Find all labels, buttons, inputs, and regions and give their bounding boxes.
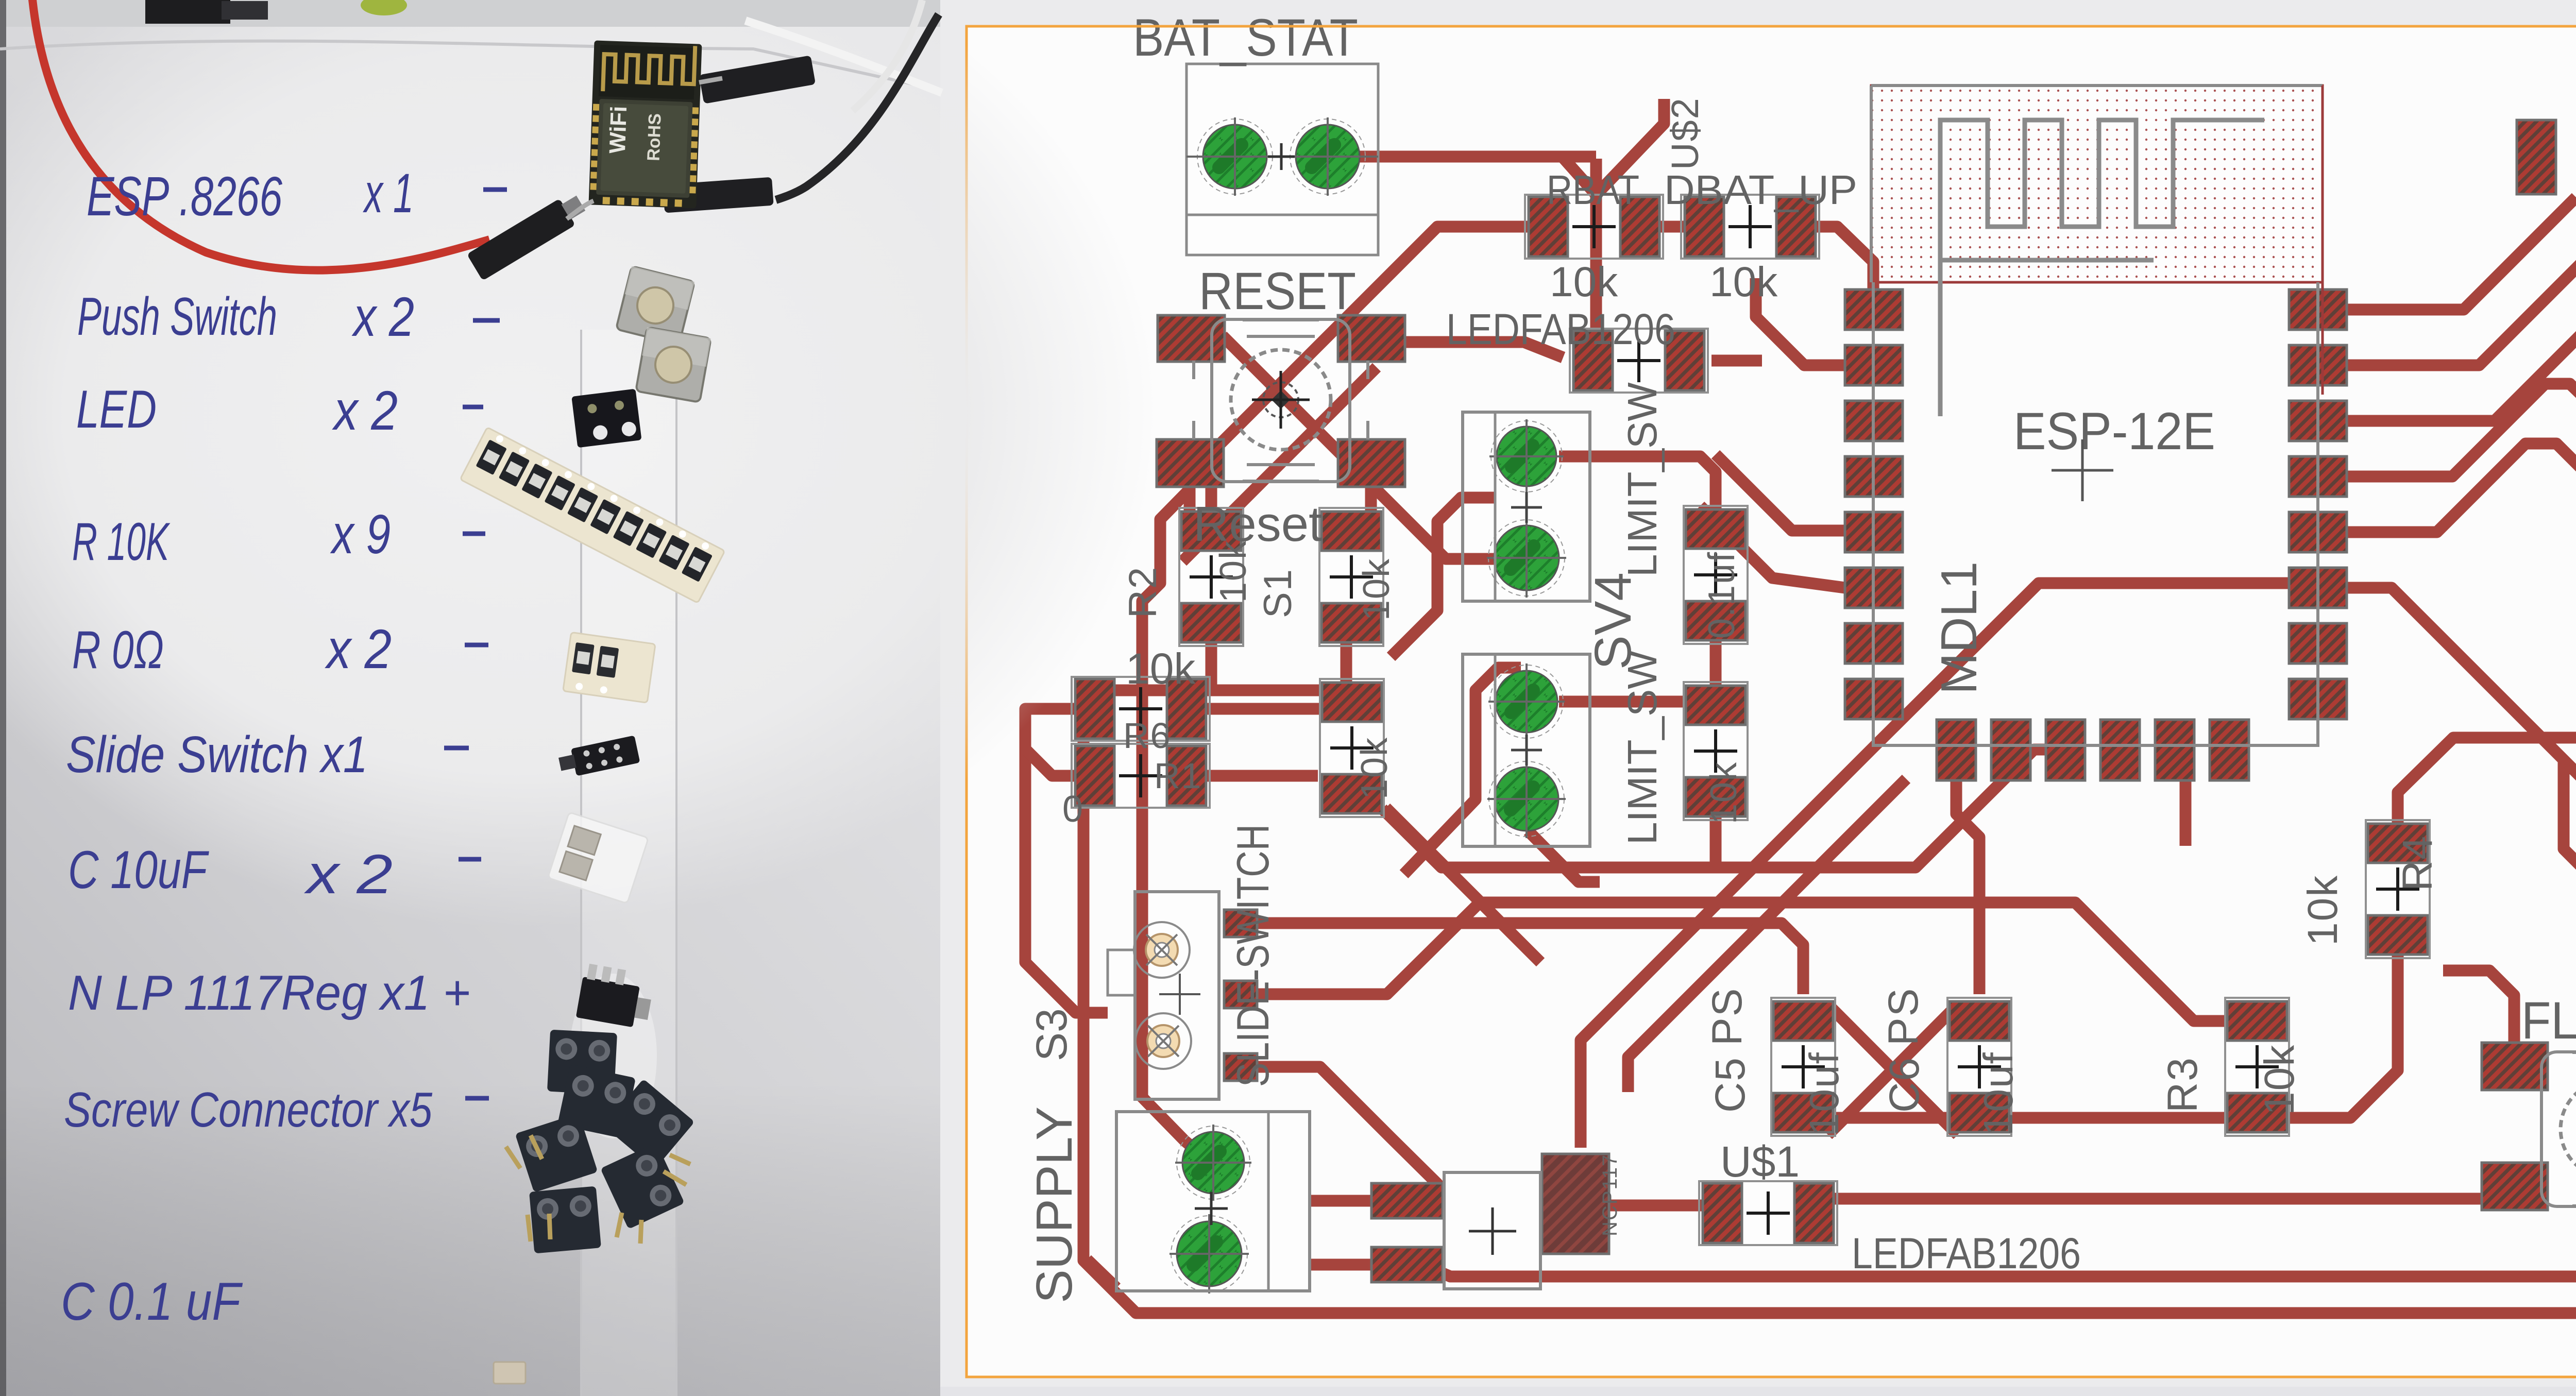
wire LIMIT2-1 xyxy=(1559,696,1691,708)
svg-text:0: 0 xyxy=(1062,789,1084,830)
svg-text:PS: PS xyxy=(1880,988,1927,1046)
wire mid bus 1 xyxy=(1382,750,2048,867)
svg-text:x 2: x 2 xyxy=(325,618,392,680)
resistor DBAT pad2 xyxy=(1776,197,1816,257)
svg-text:10k: 10k xyxy=(2299,875,2346,946)
svg-text:PS: PS xyxy=(1704,988,1751,1046)
pad ESP L3 xyxy=(1845,401,1903,441)
wire ESP R5 to IC1 L3 xyxy=(2348,444,2576,532)
wire ESP R6 down xyxy=(2348,588,2576,837)
pins xyxy=(699,78,722,82)
capacitor C5 pad1 xyxy=(1773,1001,1833,1041)
pad ESP R2 xyxy=(2289,345,2347,385)
pad ESP B1 xyxy=(1937,720,1976,780)
resistor DBAT xyxy=(1681,195,1819,259)
pad NCP-1 xyxy=(1371,1183,1443,1218)
pad ESP L5 xyxy=(1845,512,1903,552)
svg-text:DBAT_UP: DBAT_UP xyxy=(1664,167,1857,213)
svg-text:x 1: x 1 xyxy=(363,162,414,224)
svg-text:C 10uF: C 10uF xyxy=(68,840,209,900)
resistor S1col pad1 xyxy=(1321,512,1381,551)
svg-text:0.1uf: 0.1uf xyxy=(1701,551,1742,639)
pad ESP R7 xyxy=(2289,623,2347,663)
S3 drill pads xyxy=(1134,922,1190,978)
svg-text:LIMIT_SW: LIMIT_SW xyxy=(1619,650,1665,845)
photo background xyxy=(0,0,940,1396)
svg-text:10k: 10k xyxy=(1356,558,1397,621)
svg-text:ESP-12E: ESP-12E xyxy=(2013,402,2215,461)
wire S1 to U$2 xyxy=(1403,342,1563,357)
capacitor C4 0.1uf pad1 xyxy=(1686,509,1745,549)
pad LIMIT1-2 xyxy=(1494,525,1559,590)
wire V arm right xyxy=(1596,99,1664,195)
wire R6 right xyxy=(1207,703,1320,715)
svg-text:10k: 10k xyxy=(1703,761,1744,824)
wire SUPPLY-NCP2 xyxy=(1310,1259,1372,1271)
pad S3-3 xyxy=(1224,1053,1257,1081)
resistor R1 pad2 xyxy=(1167,746,1206,806)
wire to ESP L5 xyxy=(1716,454,1845,531)
push switch 2 xyxy=(636,327,711,402)
black wire xyxy=(776,14,939,200)
wire U$2 right xyxy=(1711,355,1762,367)
wire riser xyxy=(1341,665,1352,690)
LED U$1 xyxy=(1699,1181,1837,1245)
resistor R1 pad1 xyxy=(1075,746,1114,806)
svg-text:SLIDE-SWITCH: SLIDE-SWITCH xyxy=(1227,824,1278,1087)
resistor tape R10K x9 xyxy=(460,427,725,603)
pad ESP L2 xyxy=(1845,345,1903,385)
wire R1 right xyxy=(1207,770,1318,782)
svg-text:LEDFAB1206: LEDFAB1206 xyxy=(1852,1229,2081,1278)
pad S3-1 xyxy=(1224,910,1257,937)
svg-text:C 0.1 uF: C 0.1 uF xyxy=(61,1272,243,1332)
wire B1 to C6 xyxy=(1956,780,1979,994)
pad ESP B6 xyxy=(2210,720,2249,780)
wire diag to S1-2 xyxy=(1182,367,1377,561)
resistor R6 xyxy=(1072,677,1210,741)
svg-text:10k: 10k xyxy=(2256,1044,2303,1115)
pad ESP R4 xyxy=(2289,456,2347,497)
resistor 10k-2 pad1 xyxy=(1322,683,1382,722)
svg-text:LIMIT_SW: LIMIT_SW xyxy=(1619,382,1665,577)
resistor R2 xyxy=(1179,508,1243,646)
pad S3-2 xyxy=(1224,981,1257,1008)
wire S3 to C5 xyxy=(1257,923,1803,994)
svg-text:R 0Ω: R 0Ω xyxy=(72,620,164,680)
svg-text:LEDFAB1206: LEDFAB1206 xyxy=(1446,305,1675,353)
pad ESP L1 xyxy=(1845,290,1903,330)
resistor R3 pad1 xyxy=(2227,1001,2287,1041)
capacitor C5 pad2 xyxy=(1773,1093,1833,1132)
pad FTDI-1 xyxy=(2517,120,2556,194)
wire RBAT-DBAT xyxy=(1659,221,1696,233)
black housing on red wire xyxy=(467,190,589,281)
wire S3-3 to NCP xyxy=(1257,1067,1437,1200)
pad ESP L7 xyxy=(1845,623,1903,663)
wire 10k row xyxy=(1083,685,1346,696)
pad FLASH-1 xyxy=(2482,1043,2548,1090)
wire bottom bus xyxy=(1783,1092,2257,1118)
wire wrap upper xyxy=(1391,498,1494,657)
pad SUPPLY-2 xyxy=(1177,1221,1242,1286)
white wire xyxy=(745,21,942,93)
pad ESP L6 xyxy=(1845,568,1903,608)
wire LIMIT1-1 to C4 xyxy=(1559,456,1716,510)
svg-text:ESP .8266: ESP .8266 xyxy=(87,165,283,227)
pad LIMIT1-1 xyxy=(1497,427,1556,486)
capacitor C6 pad2 xyxy=(1950,1093,2009,1132)
resistor tape R0 x2 xyxy=(563,632,655,703)
wire U$1 to FLASH xyxy=(1834,1193,2482,1205)
svg-text:C6: C6 xyxy=(1881,1057,1928,1113)
antenna zone ESP-12E xyxy=(1871,86,2323,282)
svg-text:S3: S3 xyxy=(1027,1008,1076,1061)
wire B5 stub xyxy=(2180,780,2192,846)
wire SUPPLY-NCP1 xyxy=(1310,1195,1372,1207)
resistor R4 pad1 xyxy=(2368,824,2428,863)
resistor R3 pad2 xyxy=(2227,1093,2287,1132)
resistor R3 xyxy=(2225,998,2289,1136)
capacitor tape C10uf xyxy=(548,812,648,904)
capacitor C4 0.1uf xyxy=(1684,506,1748,644)
wire S1 to S1col xyxy=(1365,487,1377,514)
wire ESP R4 to IC1 L2 xyxy=(2348,384,2576,476)
pad NCP-TAB xyxy=(1542,1154,1609,1254)
regulator NCP1117 body xyxy=(1444,1172,1540,1289)
pad BAT_STAT-1 xyxy=(1203,125,1267,189)
svg-text:U$1: U$1 xyxy=(1720,1137,1800,1186)
wire to ESP L6 xyxy=(1700,506,1845,588)
connector SUPPLY body xyxy=(1116,1112,1310,1291)
push switch 1 xyxy=(616,266,695,345)
pad S1-4 xyxy=(1338,439,1405,487)
capacitor C4 0.1uf pad2 xyxy=(1686,601,1745,640)
resistor S1col pad2 xyxy=(1321,603,1381,642)
svg-text:FLASH: FLASH xyxy=(2521,991,2576,1050)
svg-text:R3: R3 xyxy=(2159,1057,2206,1113)
ESP8266 module photo xyxy=(588,40,702,208)
resistor R2 pad1 xyxy=(1181,512,1241,551)
svg-text:NCP117: NCP117 xyxy=(1599,1154,1621,1236)
svg-text:R1: R1 xyxy=(1154,756,1202,796)
svg-text:x 2: x 2 xyxy=(351,285,414,348)
wire MDL1 diag NCP xyxy=(1581,583,2292,1148)
resistor RBAT pad2 xyxy=(1620,197,1659,257)
wire S1 diag xyxy=(1223,336,1494,559)
pad ESP L8 xyxy=(1845,679,1903,719)
svg-text:10k: 10k xyxy=(1354,737,1395,799)
black connector top xyxy=(145,0,230,24)
svg-text:Slide Switch x1: Slide Switch x1 xyxy=(66,726,368,784)
module ESP-12E outline xyxy=(1873,282,2318,745)
tape strip vertical xyxy=(581,330,676,1396)
svg-text:Push Switch: Push Switch xyxy=(77,287,277,347)
NCP1117 regulator photo xyxy=(576,963,655,1029)
resistor 10kv pad2 xyxy=(1686,777,1745,816)
switch S3 body xyxy=(1135,892,1219,1099)
wire V arm left xyxy=(1562,157,1596,195)
pad ESP B2 xyxy=(1991,720,2030,780)
wire NCP to U$1 xyxy=(1609,1200,1702,1212)
LED U$2 pad1 xyxy=(1573,331,1613,390)
wire X1 xyxy=(1828,1005,1958,1135)
resistor R2 pad2 xyxy=(1181,603,1241,642)
svg-text:MDL1: MDL1 xyxy=(1930,561,1987,694)
pad ESP B3 xyxy=(2046,720,2085,780)
LED U$1 pad1 xyxy=(1703,1183,1742,1243)
svg-text:10k: 10k xyxy=(1709,259,1778,305)
pad ESP L4 xyxy=(1845,456,1903,497)
connector LIMIT_SW_1 body xyxy=(1463,412,1590,601)
pad ESP R6 xyxy=(2289,568,2347,608)
tiny 0.1uf chip xyxy=(494,1362,526,1384)
svg-text:R6: R6 xyxy=(1123,716,1171,756)
slide switch smd xyxy=(557,735,640,779)
wire X2 xyxy=(1828,1005,1958,1135)
capacitor C6 xyxy=(1947,998,2011,1136)
connector BAT_STAT body xyxy=(1187,64,1378,255)
svg-text:Screw Connector x5: Screw Connector x5 xyxy=(64,1082,433,1137)
wire left vertical xyxy=(1142,489,1200,1154)
svg-text:S1: S1 xyxy=(1256,568,1300,618)
wire R2 down xyxy=(1206,643,1217,690)
pad ESP R8 xyxy=(2289,679,2347,719)
resistor RBAT xyxy=(1525,195,1663,259)
resistor RBAT pad1 xyxy=(1529,197,1568,257)
wire inner loop xyxy=(1414,121,2576,1276)
pad ESP B5 xyxy=(2155,720,2194,780)
connector LIMIT_SW_2 body xyxy=(1463,654,1590,846)
svg-text:C5: C5 xyxy=(1707,1057,1754,1113)
resistor R4 pad2 xyxy=(2368,915,2428,955)
screw connectors pile xyxy=(547,1030,617,1095)
capacitor C5 xyxy=(1771,998,1835,1136)
svg-text:10uf: 10uf xyxy=(1801,1051,1847,1136)
pad ESP B4 xyxy=(2100,720,2140,780)
jumper housing upper right xyxy=(699,55,816,104)
pad S1-2 xyxy=(1338,315,1405,362)
LED smd black xyxy=(571,389,641,448)
wire R1 left xyxy=(1026,750,1075,776)
leaf xyxy=(361,0,407,15)
wire FLASH TL up xyxy=(2443,971,2514,1043)
resistor 10k-2 pad2 xyxy=(1322,774,1382,813)
svg-text:10k: 10k xyxy=(1126,644,1196,693)
svg-text:10uf: 10uf xyxy=(1975,1051,2021,1136)
resistor R6 pad1 xyxy=(1075,679,1114,739)
wire R4 up xyxy=(2398,738,2576,836)
wire R6 left to S3 xyxy=(1025,709,1108,1013)
antenna meander xyxy=(1940,120,2264,416)
svg-text:x 9: x 9 xyxy=(330,503,391,565)
wire ESP L2 xyxy=(1756,278,1845,365)
wire RBAT center vertical xyxy=(1590,159,1602,337)
svg-text:x 2: x 2 xyxy=(303,843,393,905)
LED U$1 pad2 xyxy=(1794,1183,1834,1243)
resistor 10kv xyxy=(1684,682,1748,820)
resistor R4 xyxy=(2366,820,2430,958)
wire ESP R2 to FTDI3 xyxy=(2348,211,2576,365)
svg-text:N LP 1117Reg x1 +: N LP 1117Reg x1 + xyxy=(68,965,470,1020)
svg-text:BAT_STAT: BAT_STAT xyxy=(1133,8,1358,67)
pad ESP R5 xyxy=(2289,512,2347,552)
LED U$2 xyxy=(1570,329,1708,393)
wire diag 2 xyxy=(1628,779,1906,1092)
svg-text:LED: LED xyxy=(76,380,157,439)
pushbutton FLASH body xyxy=(2541,1052,2576,1206)
board background xyxy=(940,0,2576,1396)
pad LIMIT2-1 xyxy=(1496,671,1557,733)
svg-text:x 2: x 2 xyxy=(332,379,398,441)
svg-text:RoHS: RoHS xyxy=(643,113,665,161)
svg-text:R 10K: R 10K xyxy=(72,512,171,572)
svg-text:R4: R4 xyxy=(2394,835,2441,891)
pad NCP-2 xyxy=(1371,1247,1443,1282)
resistor DBAT pad1 xyxy=(1685,197,1724,257)
pad BAT_STAT-2 xyxy=(1296,125,1360,189)
svg-text:10k: 10k xyxy=(1213,540,1254,603)
pushbutton S1 body xyxy=(1212,319,1350,482)
wire mid bus 2 xyxy=(1257,903,2227,1021)
resistor 10k-2 xyxy=(1320,679,1384,817)
wire ESP R1 to FTDI2 xyxy=(2348,197,2576,310)
pad FLASH-3 xyxy=(2482,1163,2548,1210)
wire S1col-10k2 xyxy=(1341,643,1352,681)
wire 10k2 diag xyxy=(1386,808,1540,962)
svg-text:WiFi: WiFi xyxy=(605,106,632,154)
jumper housing lower right xyxy=(663,177,773,213)
wire R3 to R4 xyxy=(2286,953,2398,1118)
svg-text:SUPPLY: SUPPLY xyxy=(1026,1106,1082,1303)
svg-text:RESET: RESET xyxy=(1199,262,1356,320)
red jumper wire xyxy=(32,0,489,270)
pad LIMIT2-2 xyxy=(1495,767,1558,831)
resistor R1 xyxy=(1072,744,1210,808)
wire S1 to R2 xyxy=(1184,485,1196,513)
wire DBAT to ESP xyxy=(1816,227,1873,292)
resistor 10kv pad1 xyxy=(1686,686,1745,725)
wire supply corner xyxy=(1087,1259,1116,1288)
resistor R6 pad2 xyxy=(1167,679,1206,739)
wire C4-10k xyxy=(1710,640,1722,685)
pad ESP R1 xyxy=(2289,290,2347,330)
svg-text:10k: 10k xyxy=(1550,259,1618,305)
pad S1-1 xyxy=(1158,315,1225,362)
wire RBAT diag to R2 xyxy=(1211,227,1529,514)
capacitor C6 pad1 xyxy=(1950,1001,2009,1041)
wire wrap lower xyxy=(1404,668,1521,874)
board frame xyxy=(967,26,2576,1377)
wire ESP R3 to R7 xyxy=(2348,274,2576,574)
wire 10k down xyxy=(1710,816,1722,867)
wire BAT to RBAT xyxy=(1328,151,1596,163)
pad S1-3 xyxy=(1157,439,1224,487)
svg-text:R2: R2 xyxy=(1121,566,1165,618)
svg-text:U$2: U$2 xyxy=(1664,97,1706,170)
wire GND outer loop xyxy=(1083,66,2576,1313)
wire LIMIT2-2 xyxy=(1528,831,1600,882)
svg-text:RBAT: RBAT xyxy=(1547,167,1639,213)
pad ESP R3 xyxy=(2289,401,2347,441)
resistor S1col xyxy=(1319,508,1383,646)
pad SUPPLY-1 xyxy=(1182,1132,1244,1194)
LED U$2 pad2 xyxy=(1665,331,1704,390)
wire to LIMIT3-1 xyxy=(2564,762,2576,935)
